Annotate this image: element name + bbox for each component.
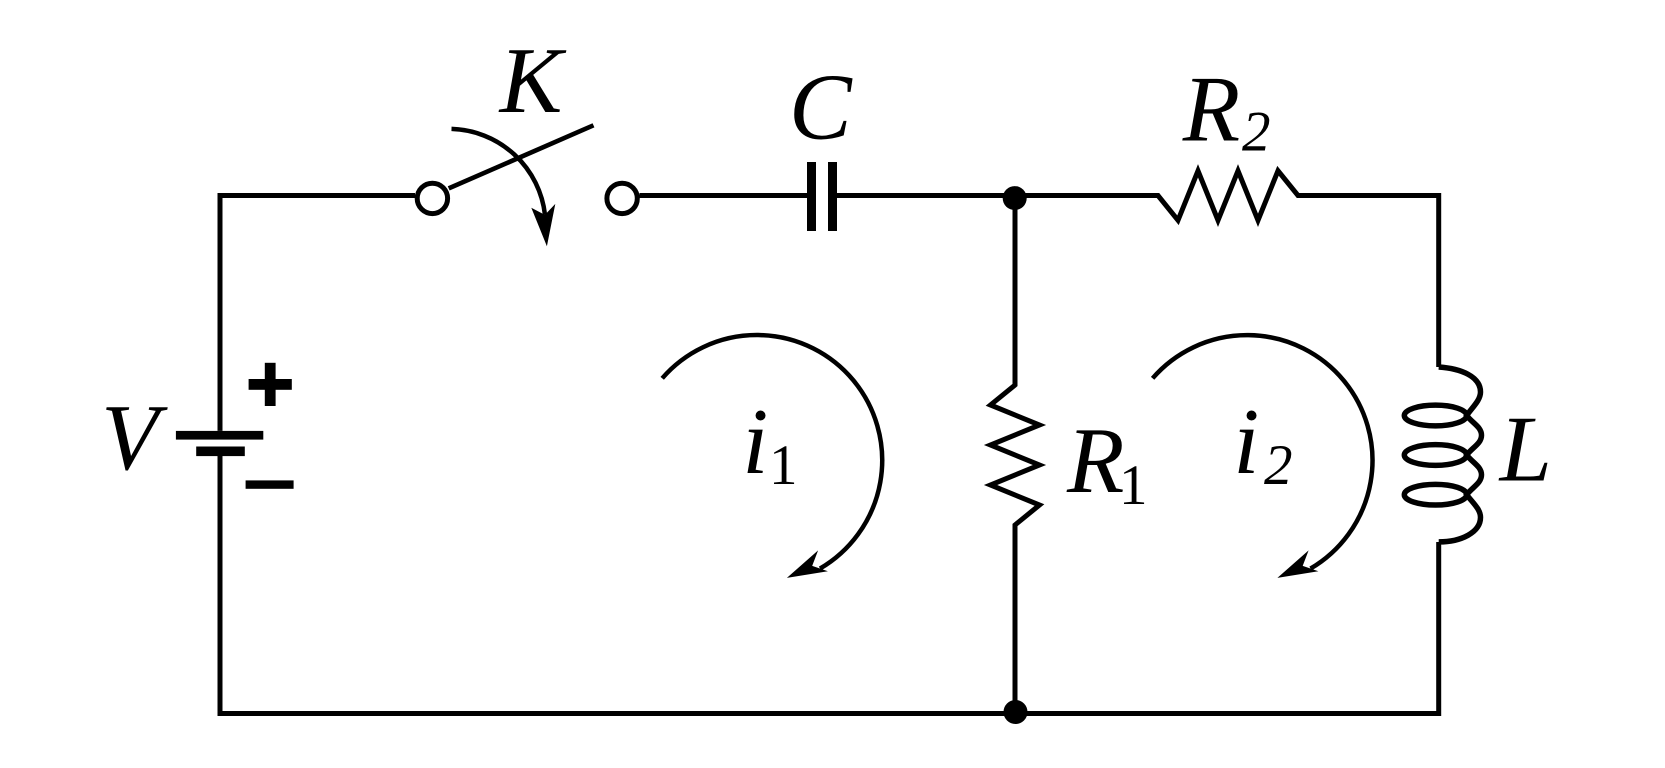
svg-text:i: i	[742, 390, 768, 494]
svg-text:1: 1	[1119, 454, 1148, 517]
svg-text:2: 2	[1242, 101, 1271, 164]
svg-text:1: 1	[769, 434, 798, 497]
svg-text:R: R	[1066, 409, 1124, 513]
svg-text:i: i	[1233, 390, 1259, 494]
svg-text:V: V	[101, 386, 168, 490]
svg-text:R: R	[1182, 58, 1240, 162]
svg-text:C: C	[789, 56, 853, 160]
svg-text:2: 2	[1264, 434, 1293, 497]
svg-text:L: L	[1498, 398, 1552, 502]
svg-text:K: K	[498, 29, 567, 133]
